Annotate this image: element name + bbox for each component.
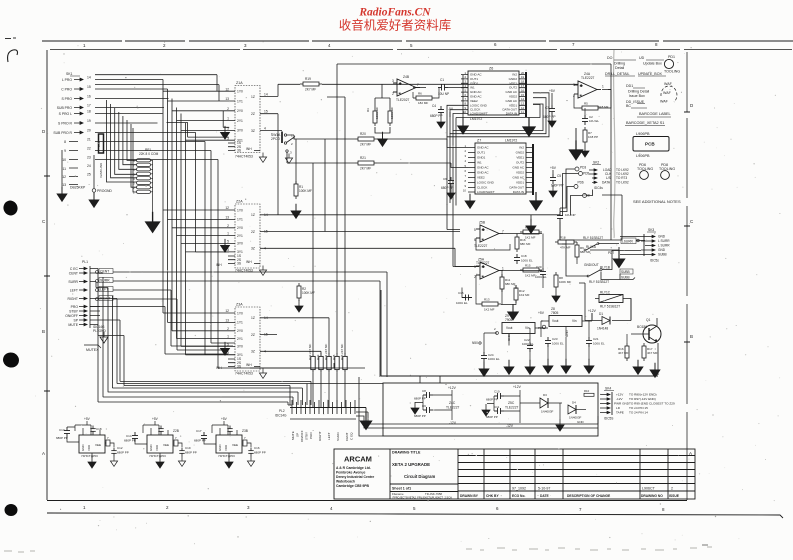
svg-text:R25: R25 [332, 354, 336, 360]
svg-text:GND1: GND1 [477, 156, 486, 160]
svg-text:TO R80(+12V END): TO R80(+12V END) [629, 393, 657, 397]
scan blob left margin bottom [5, 504, 18, 516]
svg-text:DRILL_DETAIL: DRILL_DETAIL [605, 72, 630, 76]
drawing frame top ruled lines [42, 41, 793, 50]
svg-text:74HCT4053: 74HCT4053 [235, 155, 253, 159]
PCB outline box L906PB [633, 132, 669, 158]
left frame tick marks [44, 112, 690, 391]
svg-text:VEE1: VEE1 [516, 156, 524, 160]
regulator Z9 7905 [484, 314, 548, 353]
svg-text:LM1972: LM1972 [505, 139, 517, 143]
op-amp Z5A TLE2227 [474, 258, 504, 280]
svg-text:+12V: +12V [448, 386, 457, 390]
svg-text:TLE2227: TLE2227 [446, 406, 460, 410]
svg-text:A & R Cambridge Ltd.: A & R Cambridge Ltd. [336, 466, 371, 470]
svg-text:GND/OUT: GND/OUT [584, 263, 599, 267]
svg-text:DATA OUT: DATA OUT [509, 186, 524, 190]
svg-text:MUTE: MUTE [291, 431, 295, 440]
RP1 common rail wire [151, 160, 153, 216]
svg-text:GND AC: GND AC [477, 146, 489, 150]
resistor R18 47K MF [555, 240, 577, 244]
resistor R10 link [584, 393, 594, 396]
diode D4 1N4003F [568, 401, 586, 425]
svg-text:+5V: +5V [152, 417, 159, 421]
svg-text:UD: UD [639, 56, 645, 60]
svg-text:SK4: SK4 [605, 387, 611, 391]
capacitor C16c 680P PP [248, 448, 253, 457]
wire Z3A outputs right [268, 318, 329, 354]
svg-text:680P PP: 680P PP [185, 451, 197, 455]
capacitor C21 100U EL [586, 337, 592, 347]
svg-text:-12V: -12V [506, 424, 514, 428]
wafer mark WAF [660, 82, 677, 104]
svg-text:18: 18 [521, 80, 525, 84]
svg-text:2Y0: 2Y0 [237, 329, 243, 333]
resistor R12 1K2 MF [514, 285, 518, 303]
svg-text:ON/OFF: ON/OFF [300, 430, 304, 442]
svg-text:3Z: 3Z [251, 247, 255, 251]
resistor pack RP1 22K 8x COM [107, 100, 159, 216]
svg-text:R23: R23 [316, 354, 320, 360]
svg-text:11: 11 [62, 167, 66, 171]
svg-text:17: 17 [87, 104, 91, 108]
svg-text:2: 2 [227, 327, 229, 331]
svg-text:PD5: PD5 [583, 172, 589, 176]
capacitor C20 100U EL [540, 268, 546, 278]
svg-text:DATA: DATA [602, 180, 611, 184]
svg-text:TLE2227: TLE2227 [505, 406, 519, 410]
svg-text:SURR: SURR [100, 279, 110, 283]
svg-text:12: 12 [225, 206, 229, 210]
svg-text:Vout: Vout [552, 319, 558, 323]
net tag SUBB [620, 269, 633, 274]
wires resistors to PL2 [313, 373, 345, 407]
jumper link LK1 [97, 134, 104, 178]
svg-text:RIGHT: RIGHT [318, 431, 322, 441]
svg-text:GND AC: GND AC [477, 171, 489, 175]
wire top row from Z1A to Z4A input [268, 64, 611, 354]
svg-text:A: A [42, 451, 45, 456]
capacitor C1 10U NP [438, 85, 448, 91]
svg-text:SK3: SK3 [648, 228, 654, 232]
svg-text:100U EL: 100U EL [552, 342, 564, 346]
svg-text:OUT2: OUT2 [509, 86, 517, 90]
svg-text:24: 24 [87, 164, 91, 168]
svg-text:Pembroke Avenue: Pembroke Avenue [336, 471, 365, 475]
svg-text:S PRO R: S PRO R [58, 122, 72, 126]
resistor R19 2K7 MF [300, 82, 322, 86]
scan blob left margin upper [1, 199, 19, 218]
svg-text:Detail: Detail [615, 66, 624, 70]
svg-text:2Y1: 2Y1 [237, 337, 243, 341]
wire relay column verticals [560, 195, 631, 321]
svg-text:ISSUE: ISSUE [669, 494, 680, 498]
wire cluster verticals into op-amp Z5 inputs [447, 202, 479, 267]
lower option box outline [383, 383, 598, 436]
capacitor C19 680P PP [179, 448, 184, 457]
svg-text:C17: C17 [196, 429, 202, 433]
capacitor C6 680P PP with ground [448, 177, 454, 187]
svg-text:D4: D4 [572, 401, 576, 405]
svg-text:SK1: SK1 [66, 72, 73, 76]
svg-text:+5V: +5V [549, 89, 556, 93]
resistor R3 100K MF [373, 108, 377, 126]
svg-text:100K MF: 100K MF [375, 107, 379, 119]
svg-text:3Y0: 3Y0 [237, 242, 243, 246]
connector PL2 IDC14G [275, 400, 356, 442]
svg-text:1Y0: 1Y0 [237, 90, 243, 94]
svg-text:DESCRIPTION OF CHANGE: DESCRIPTION OF CHANGE [567, 494, 611, 498]
svg-text:R6: R6 [418, 92, 422, 96]
svg-text:ECO No.: ECO No. [512, 494, 525, 498]
volume IC Z7 LM1972 [463, 139, 533, 196]
svg-text:2Y0: 2Y0 [237, 226, 243, 230]
svg-text:PD6: PD6 [578, 181, 584, 185]
tooling hole PD6 [637, 163, 653, 179]
frame column numbers bottom [83, 505, 665, 512]
svg-text:182 MF: 182 MF [418, 101, 428, 105]
svg-text:R5: R5 [584, 102, 588, 106]
svg-text:97_1092: 97_1092 [512, 487, 526, 491]
wire bus SK1 fanout to muxes [95, 80, 365, 369]
annotation: barcode label [625, 112, 671, 126]
svg-text:GND AC: GND AC [505, 99, 517, 103]
svg-text:PCB: PCB [645, 142, 655, 147]
svg-text:13: 13 [225, 97, 229, 101]
svg-text:5-10-97: 5-10-97 [538, 487, 550, 491]
svg-text:16: 16 [87, 95, 91, 99]
faint vertical scan crease [614, 50, 615, 238]
svg-text:GND: GND [81, 445, 85, 451]
wire R3 R4 tops [375, 84, 390, 108]
switch SW1A 2PCO [271, 132, 295, 164]
svg-text:Drilling Detail: Drilling Detail [628, 90, 649, 94]
svg-text:C20: C20 [536, 265, 542, 269]
svg-text:SUB PRO R: SUB PRO R [53, 131, 72, 135]
svg-text:Update Box: Update Box [643, 62, 662, 66]
capacitor C16b [227, 426, 232, 435]
svg-text:CHK BY: CHK BY [486, 494, 499, 498]
svg-text:680P PP: 680P PP [117, 451, 129, 455]
diode D3 1N4003F [520, 393, 564, 431]
wire Z4B input feeds [393, 83, 397, 92]
svg-text:IN2: IN2 [519, 146, 524, 150]
svg-text:C8: C8 [422, 389, 426, 393]
svg-text:VEE2: VEE2 [477, 176, 485, 180]
resistor R13 1K2 MF [479, 302, 501, 306]
op-amp Z5B TLE2227 [474, 221, 504, 249]
connector SK1 (DB25) [53, 72, 80, 187]
svg-text:2Z: 2Z [251, 333, 255, 337]
svg-text:PRO: PRO [71, 305, 79, 309]
svg-text:IN2: IN2 [512, 73, 517, 77]
connector SK2 [592, 161, 601, 165]
svg-text:R19: R19 [305, 77, 311, 81]
svg-text:VDD: VDD [224, 445, 228, 451]
svg-text:13: 13 [225, 319, 229, 323]
transistor Q1 BC636 [631, 318, 661, 375]
svg-text:VDD2: VDD2 [516, 171, 524, 175]
svg-text:DATE: DATE [540, 494, 550, 498]
svg-text:C PRO: C PRO [61, 88, 72, 92]
svg-text:5: 5 [227, 127, 229, 131]
svg-text:GND: GND [658, 235, 666, 239]
svg-text:2Y0: 2Y0 [237, 109, 243, 113]
svg-text:9: 9 [64, 149, 66, 153]
diode D1 1N4148 [585, 312, 631, 331]
resistor R22 2K7 MF [311, 353, 315, 373]
wire SK1 row5 [95, 114, 181, 347]
svg-text:L SURR: L SURR [658, 244, 670, 248]
svg-text:INH: INH [216, 263, 222, 267]
svg-text:13: 13 [225, 216, 229, 220]
svg-text:INH: INH [246, 260, 252, 264]
svg-text:IDC5S: IDC5S [604, 417, 613, 421]
svg-text:1Y0: 1Y0 [237, 208, 243, 212]
capacitor C24 100U EL [481, 352, 487, 362]
svg-text:14: 14 [521, 97, 525, 101]
svg-text:68K MF: 68K MF [520, 242, 531, 246]
svg-text:R22 2K7 MF: R22 2K7 MF [308, 344, 312, 360]
svg-text:1K2 MF: 1K2 MF [525, 236, 536, 240]
resistor R17 4K7 MF [642, 343, 646, 361]
pad PD8b [583, 194, 587, 198]
svg-text:GND AC: GND AC [470, 95, 482, 99]
svg-text:4: 4 [264, 127, 266, 131]
svg-text:3: 3 [392, 79, 394, 83]
svg-text:25: 25 [87, 173, 91, 177]
wire long feed from R19 junction down left column [300, 83, 305, 85]
svg-text:3: 3 [474, 265, 476, 269]
svg-text:19: 19 [87, 119, 91, 123]
svg-text:SUBB: SUBB [658, 253, 667, 257]
bottom-right faint specks [4, 545, 712, 552]
svg-text:GND: GND [149, 445, 153, 451]
wire Z2A 3Z to Z5A [268, 248, 479, 266]
svg-text:TO 24 PIN 14: TO 24 PIN 14 [629, 411, 648, 415]
svg-text:UPDATE_BOX: UPDATE_BOX [638, 72, 663, 76]
svg-text:+5V: +5V [538, 311, 545, 315]
svg-text:DATA IN: DATA IN [513, 190, 524, 194]
svg-text:PL1: PL1 [82, 260, 88, 264]
svg-text:GND: GND [218, 445, 222, 451]
svg-text:RLY1C: RLY1C [600, 291, 611, 295]
svg-text:XETA 2 UPGRADE: XETA 2 UPGRADE [392, 462, 430, 467]
svg-text:10U NP: 10U NP [438, 92, 449, 96]
connector SK3 [641, 228, 670, 263]
svg-text:TO R99 (END CLOSEST TO Z29: TO R99 (END CLOSEST TO Z29 [629, 402, 675, 406]
svg-text:100U EL: 100U EL [535, 275, 547, 279]
resistor R11 68K MF [500, 274, 504, 292]
svg-text:4K7 MF: 4K7 MF [647, 351, 658, 355]
svg-text:1N4003F: 1N4003F [569, 416, 582, 420]
resistor R2 100K MF [297, 283, 301, 301]
ground stub on audio feed line [530, 215, 532, 222]
ground right of PL2 [356, 408, 366, 418]
svg-text:2: 2 [671, 487, 673, 491]
wire Z2A 2Z to Z5B [271, 231, 460, 233]
svg-text:R26 2K7 MF: R26 2K7 MF [340, 344, 344, 360]
svg-text:1N4148: 1N4148 [597, 327, 608, 331]
svg-text:1Y1: 1Y1 [237, 218, 243, 222]
mux Z3B 74HCT4053 (bottom right) [216, 425, 248, 468]
svg-text:C14: C14 [126, 434, 132, 438]
svg-text:680P PP: 680P PP [124, 439, 136, 443]
svg-text:1: 1 [227, 335, 229, 339]
wire branches into mux Z3A [163, 313, 229, 355]
wires relay to SK3 [560, 237, 645, 280]
svg-text:100K MF: 100K MF [559, 280, 571, 284]
capacitor C8 680P PP [423, 392, 433, 398]
svg-text:12: 12 [225, 87, 229, 91]
analog mux Z2A 74HCT4053 [216, 200, 271, 276]
svg-text:SP: SP [296, 433, 300, 437]
svg-text:C21: C21 [593, 337, 599, 341]
relay RLY1C coil [595, 291, 631, 321]
svg-text:PWR GND: PWR GND [614, 402, 630, 406]
svg-text:OUT1: OUT1 [477, 151, 485, 155]
relay RLY1A 51SB12T [583, 236, 603, 251]
svg-text:15: 15 [264, 110, 268, 114]
svg-text:Z6: Z6 [489, 67, 493, 71]
svg-text:L SURR: L SURR [658, 239, 670, 243]
SK2 pin arrows [589, 169, 597, 184]
svg-text:PD3: PD3 [580, 166, 586, 170]
svg-text:IDC14G: IDC14G [275, 414, 287, 418]
svg-text:Z2A: Z2A [236, 200, 243, 204]
svg-text:100U EL: 100U EL [488, 357, 500, 361]
svg-text:100U EL: 100U EL [456, 301, 468, 305]
svg-text:2Y1: 2Y1 [237, 234, 243, 238]
svg-text:DRAWING NO: DRAWING NO [641, 494, 663, 498]
mux reference ground arrows [221, 126, 230, 139]
svg-text:2: 2 [392, 92, 394, 96]
svg-text:GND AC: GND AC [512, 166, 524, 170]
svg-text:2PCO: 2PCO [271, 137, 280, 141]
relay RLY1B 51SB12T [587, 266, 610, 285]
resistor pin7 stub Z2B [174, 440, 178, 446]
svg-text:ON/OFF: ON/OFF [65, 314, 78, 318]
svg-text:D1: D1 [599, 312, 603, 316]
svg-text:RIGHT: RIGHT [67, 297, 78, 301]
svg-text:10: 10 [62, 158, 66, 162]
annotation: update box UD [638, 56, 666, 76]
resistor R20 2K7 MF [355, 137, 377, 141]
svg-text:3: 3 [573, 83, 575, 87]
svg-text:7905: 7905 [505, 318, 513, 322]
resistor R16 68K MF [515, 234, 519, 252]
svg-text:R24 2K7 MF: R24 2K7 MF [324, 344, 328, 360]
capacitor C18 100U EL [514, 254, 520, 264]
resistor R25 2K7 MF [335, 353, 339, 373]
ground under RP1 (PROGND rail) [146, 212, 160, 232]
svg-text:GND AC: GND AC [512, 176, 524, 180]
svg-text:BC: BC [626, 104, 631, 108]
capacitor C11 680P PP [494, 408, 504, 414]
ground under Z6 [458, 118, 468, 134]
svg-text:TOOLING: TOOLING [664, 70, 680, 74]
frame column numbers top [83, 42, 658, 48]
svg-text:C15: C15 [458, 291, 464, 295]
svg-text:VDD: VDD [87, 445, 91, 451]
svg-text:Z4B: Z4B [403, 75, 410, 79]
svg-text:C12: C12 [117, 446, 123, 450]
svg-text:IN1: IN1 [477, 161, 482, 165]
wire SK1 row1 [95, 80, 163, 314]
svg-text:R3: R3 [366, 108, 370, 112]
svg-text:680P PP: 680P PP [254, 451, 266, 455]
svg-text:LK1: LK1 [97, 141, 101, 147]
svg-text:10: 10 [463, 110, 467, 114]
svg-text:Z4C: Z4C [449, 401, 456, 405]
svg-text:S PRO: S PRO [61, 97, 72, 101]
svg-text:100K MF: 100K MF [299, 189, 312, 193]
resistor R26 2K7 MF [343, 353, 347, 373]
svg-text:4K7 MF: 4K7 MF [618, 351, 629, 355]
svg-text:SURR: SURR [68, 280, 78, 284]
wire SK2 pads staircase down [560, 169, 593, 216]
resistor R9 68K MF [575, 242, 579, 260]
capacitor C2 10U EL [582, 115, 588, 125]
capacitor C23 100U EL [545, 337, 551, 347]
wire Z4A output to relay feed column [610, 90, 612, 241]
capacitor C22 100U EL [527, 342, 533, 352]
svg-text:22K 8 0 COM: 22K 8 0 COM [139, 152, 159, 156]
svg-text:GND AC: GND AC [470, 90, 482, 94]
svg-text:VDD2: VDD2 [509, 95, 517, 99]
svg-text:47K MF: 47K MF [560, 246, 571, 250]
wire branches into mux Z1A [163, 91, 229, 140]
connector SK4 [600, 387, 675, 421]
svg-text:C6: C6 [443, 177, 447, 181]
regulator Z8 7805 [541, 307, 592, 337]
svg-text:11: 11 [521, 110, 524, 114]
svg-text:20: 20 [521, 71, 525, 75]
svg-text:1K2 MF: 1K2 MF [484, 308, 495, 312]
wire SK1 row3 [95, 99, 172, 331]
resistor R1 100K MF [294, 181, 298, 199]
resistor R15 1K2 MF [520, 268, 542, 272]
svg-text:100U EL: 100U EL [522, 342, 534, 346]
svg-text:R10: R10 [584, 389, 590, 393]
resistor R16b 4K7 MF [625, 343, 629, 361]
svg-text:C EC: C EC [70, 267, 79, 271]
svg-text:Circuit Diagram: Circuit Diagram [404, 474, 435, 479]
svg-text:Z3A: Z3A [236, 303, 243, 307]
svg-text:18: 18 [87, 110, 91, 114]
svg-text:L906PB: L906PB [636, 132, 650, 136]
header red site text [339, 7, 452, 33]
svg-text:TLE2227: TLE2227 [581, 76, 595, 80]
svg-text:PL2: PL2 [279, 409, 285, 413]
svg-text:Denny Industrial Centre: Denny Industrial Centre [336, 475, 374, 479]
svg-text:12: 12 [62, 175, 66, 179]
svg-text:680P PP: 680P PP [486, 415, 498, 419]
svg-text:23: 23 [87, 156, 91, 160]
svg-text:Issue Box: Issue Box [629, 94, 645, 98]
svg-text:680P PP: 680P PP [486, 398, 498, 402]
svg-text:2K7 MF: 2K7 MF [360, 167, 371, 171]
svg-text:14: 14 [264, 93, 268, 97]
svg-text:+5V: +5V [221, 417, 228, 421]
svg-text:Vin: Vin [525, 326, 530, 330]
svg-text:Z5C: Z5C [508, 401, 515, 405]
ground PROGND mid [89, 155, 112, 207]
svg-text:Cambridge CB5 9PB: Cambridge CB5 9PB [336, 484, 370, 488]
svg-text:3Y0: 3Y0 [237, 345, 243, 349]
svg-text:LSURR: LSURR [622, 240, 634, 244]
resistor pin7 stub Z3B [243, 440, 247, 446]
